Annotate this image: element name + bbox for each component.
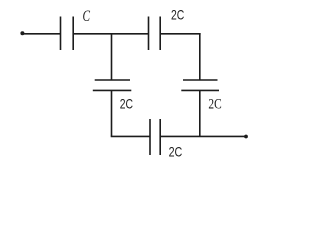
wire left branch vertical upper	[111, 34, 113, 80]
capacitor C3 (left vertical 2C)	[93, 80, 132, 90]
wire bottom-right segment	[160, 135, 246, 137]
capacitor C1	[61, 17, 74, 51]
capacitor C5 (bottom 2C)	[150, 119, 160, 155]
terminal dot right	[244, 135, 248, 139]
svg-text:2C: 2C	[120, 96, 133, 111]
svg-text:2C: 2C	[171, 8, 184, 23]
capacitor C2 (top 2C)	[149, 17, 161, 51]
svg-text:2C: 2C	[208, 96, 221, 112]
wire right branch vertical lower	[199, 90, 201, 136]
svg-text:C: C	[83, 8, 91, 25]
wire top-middle segment	[73, 33, 148, 35]
capacitor C4 (right vertical 2C)	[181, 80, 219, 90]
wire bottom-left segment	[111, 135, 150, 137]
wire top-right segment	[160, 33, 200, 35]
wire left branch vertical lower	[111, 90, 113, 136]
wire right branch vertical upper	[199, 33, 201, 80]
svg-text:2C: 2C	[169, 144, 183, 159]
wire top-left segment	[22, 33, 60, 35]
terminal dot left	[20, 31, 24, 35]
